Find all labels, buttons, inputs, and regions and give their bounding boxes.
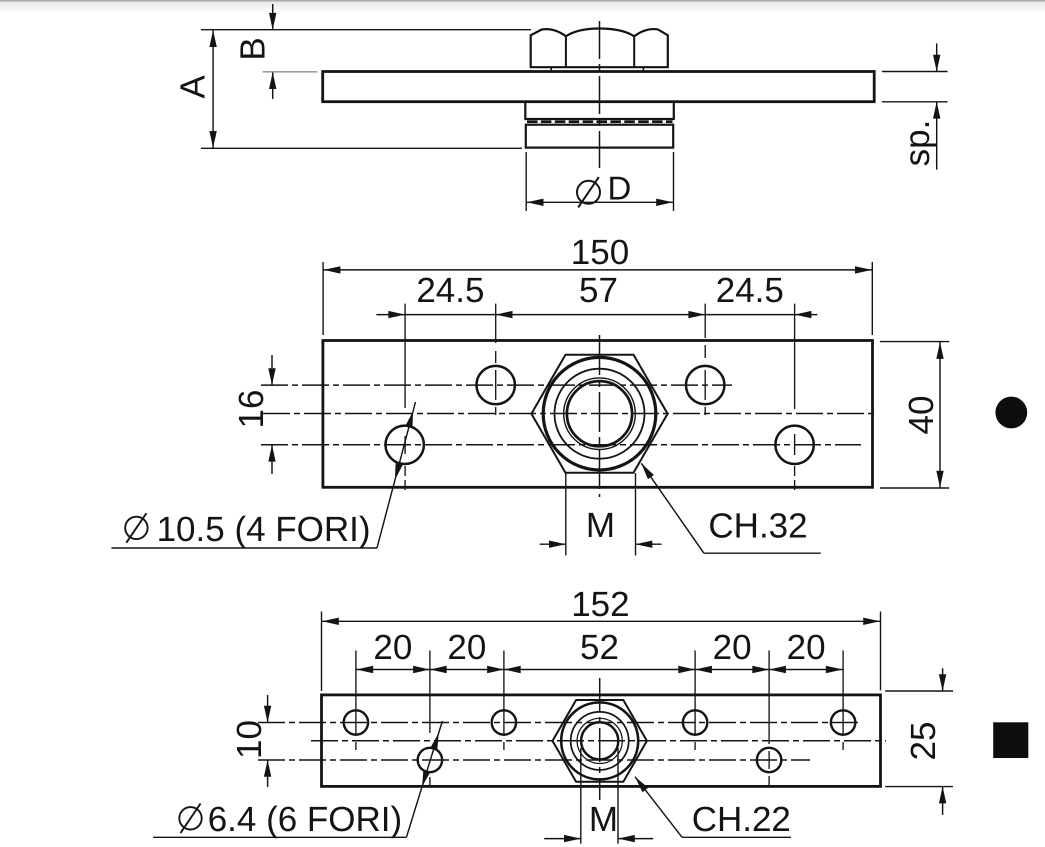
svg-text:6.4 (6 FORI): 6.4 (6 FORI): [208, 800, 402, 839]
front view: nut vertical centerline: [599, 335, 601, 497]
dimension 40: dimension line: [939, 342, 941, 488]
front view: hole 1 (lower left): [386, 426, 424, 464]
bottom view: nut vertical centerline: [599, 678, 601, 800]
label CH.32: leader: [641, 463, 704, 553]
side view: washer under plate: [525, 102, 674, 119]
extension line through hole 3: [704, 304, 706, 338]
svg-text:CH.22: CH.22: [692, 800, 791, 839]
svg-text:20: 20: [373, 628, 412, 667]
front view: hole 4 (lower right): [775, 426, 813, 464]
front view: hex nut CH.32 hexagon: [531, 355, 667, 473]
svg-text:25: 25: [904, 722, 943, 761]
bottom view: hole 1 (6.4): [344, 710, 368, 734]
label 10.5: leader: [111, 547, 377, 549]
dimension B: upper arrow: [272, 4, 274, 30]
front view: hole 3 (upper right): [686, 366, 724, 404]
bottom view: hole 6 (6.4): [757, 748, 781, 772]
dimension M bottom: arrows: [544, 838, 581, 840]
front view: main horizontal centerline: [263, 413, 878, 415]
side view: vertical centerline: [599, 21, 601, 168]
dimension D: extension lines: [525, 152, 527, 211]
svg-text:24.5: 24.5: [716, 271, 784, 310]
front view: nut bearing circle: [555, 369, 645, 459]
extension line through upper hole x=695.1: [694, 651, 696, 737]
dimension row 24.5-57-24.5: dimension line: [376, 314, 817, 316]
extension line through upper hole x=843.1: [842, 651, 844, 737]
bottom view: hole 5 (6.4): [418, 748, 442, 772]
dimension 16: arrows: [271, 355, 273, 385]
dimension 150: dimension line: [323, 269, 872, 271]
marker: black dot: [995, 397, 1027, 429]
front view: upper holes centerline: [261, 384, 732, 386]
dimension 10: arrows: [267, 695, 269, 723]
side view: stud ticks under nut: [550, 67, 552, 71]
svg-text:A: A: [174, 75, 213, 99]
svg-text:CH.32: CH.32: [708, 507, 807, 546]
dimension row 20-20-52-20-20: dimension line: [356, 669, 843, 671]
svg-text:10: 10: [230, 720, 269, 759]
dimension M: extension lines: [565, 473, 567, 556]
svg-text:24.5: 24.5: [416, 271, 484, 310]
bottom view: thread hole circle: [581, 722, 618, 759]
extension line through upper hole x=355.9: [355, 651, 357, 737]
extension line through hole 4: [794, 304, 796, 409]
bottom view: hole 2 (6.4): [492, 710, 516, 734]
label CH.22: leader: [635, 777, 682, 838]
extension line through hole 2: [495, 304, 497, 343]
dimension D: dimension line: [526, 201, 673, 203]
dimension 150: extension lines: [322, 262, 324, 335]
bottom view: nut bearing circle: [571, 712, 629, 770]
dimension 25: arrows: [942, 668, 944, 691]
svg-text:B: B: [233, 37, 272, 60]
label 10.5: diameter symbol: [125, 517, 147, 539]
dimension B: lower arrow: [272, 72, 274, 99]
front view: thread major circle: [564, 378, 636, 450]
side view: bushing block: [526, 125, 673, 148]
bottom view: hole 3 (6.4): [683, 710, 707, 734]
svg-text:D: D: [608, 170, 632, 207]
extension line plate top (gray): [263, 71, 318, 73]
bottom view: main horizontal centerline: [311, 740, 886, 742]
side view: plate outline: [323, 72, 875, 102]
extension line through upper hole x=503.9: [503, 651, 505, 737]
dimension A: dimension line: [212, 30, 214, 149]
svg-text:40: 40: [902, 396, 941, 435]
dimension A: bottom extension line: [201, 147, 522, 149]
bottom view: lower holes centerline: [258, 759, 810, 761]
front view: hole 2 (upper left): [477, 366, 515, 404]
front view: nut chamfer circle: [543, 357, 656, 470]
bottom view: hole 4 (6.4): [831, 710, 855, 734]
svg-text:M: M: [589, 800, 618, 839]
svg-text:20: 20: [787, 628, 826, 667]
svg-text:sp.: sp.: [898, 120, 937, 167]
extension line through hole at 429.9: [429, 651, 431, 734]
front view: plate outline: [323, 341, 873, 488]
dimension 152: extension lines: [321, 612, 323, 692]
dimension M bottom: extension lines: [580, 748, 582, 844]
dimension 152: dimension line: [322, 620, 881, 622]
extension line through hole 1: [404, 304, 406, 408]
bottom view: hex nut CH.22 hexagon: [553, 700, 647, 782]
svg-text:52: 52: [580, 628, 619, 667]
extension line through hole at 769.1: [768, 651, 770, 745]
dimension 40: extension lines: [880, 341, 949, 343]
svg-text:20: 20: [713, 628, 752, 667]
dimension M: arrows: [540, 543, 566, 545]
dimension D: diameter symbol: [577, 181, 600, 204]
dimension sp.: arrows: [936, 43, 938, 71]
label 6.4: leader: [153, 836, 406, 838]
svg-text:10.5 (4 FORI): 10.5 (4 FORI): [157, 510, 371, 549]
label 6.4: diameter symbol: [179, 807, 201, 829]
svg-text:152: 152: [571, 585, 629, 624]
front view: lower holes centerline: [261, 444, 861, 446]
dimension A: top extension line: [201, 29, 531, 31]
marker: black square: [993, 722, 1028, 758]
svg-text:57: 57: [579, 271, 618, 310]
bottom view: nut chamfer circle: [561, 702, 638, 779]
dimension 25: extension lines: [885, 690, 953, 692]
bottom view: thread major circle: [577, 718, 622, 763]
front view: thread hole circle: [567, 381, 632, 446]
svg-text:150: 150: [571, 233, 629, 272]
dimension sp.: extension lines: [882, 71, 948, 73]
svg-text:20: 20: [447, 628, 486, 667]
svg-text:16: 16: [232, 390, 271, 429]
side view: hex nut profile: [531, 29, 668, 68]
page top shading: [0, 0, 1045, 2]
bottom view: plate outline: [322, 695, 881, 787]
bottom view: upper holes centerline: [258, 722, 858, 724]
svg-text:M: M: [586, 506, 615, 545]
side view: lock washer serration (dashed): [527, 120, 673, 123]
